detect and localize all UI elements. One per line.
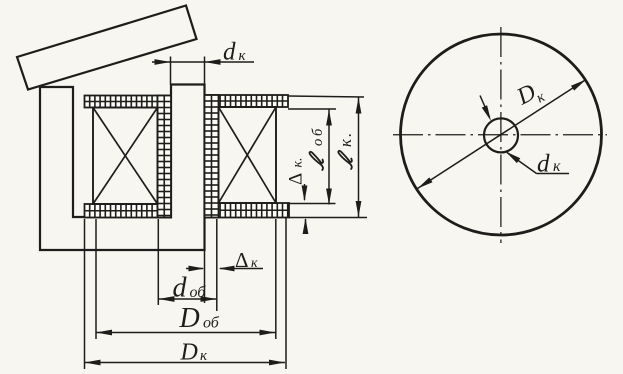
svg-text:к: к xyxy=(239,48,247,64)
svg-text:к.: к. xyxy=(336,131,355,147)
svg-text:к: к xyxy=(251,256,258,271)
svg-text:d: d xyxy=(537,151,550,178)
svg-text:к: к xyxy=(200,348,208,364)
svg-text:D: D xyxy=(179,303,200,334)
svg-text:d: d xyxy=(223,39,236,66)
svg-text:об: об xyxy=(203,315,220,332)
svg-text:Δ: Δ xyxy=(286,173,307,185)
svg-text:Δ: Δ xyxy=(235,248,249,272)
svg-text:об: об xyxy=(310,126,326,146)
svg-text:D: D xyxy=(180,340,198,366)
svg-text:d: d xyxy=(173,273,188,304)
svg-text:к.: к. xyxy=(291,157,306,167)
svg-text:к: к xyxy=(553,158,561,175)
svg-text:об: об xyxy=(190,284,207,301)
